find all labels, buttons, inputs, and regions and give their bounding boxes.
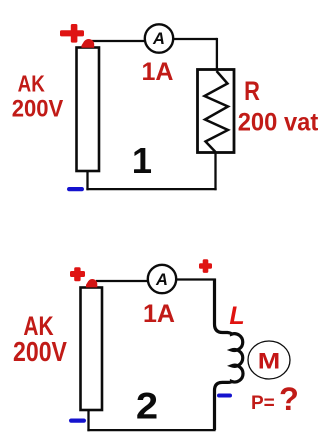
svg-text:AK: AK (18, 70, 46, 97)
svg-text:200V: 200V (12, 94, 64, 121)
svg-text:M: M (258, 349, 280, 373)
svg-text:P=: P= (251, 393, 275, 414)
svg-text:200V: 200V (13, 337, 67, 367)
svg-text:A: A (155, 271, 168, 289)
svg-text:2: 2 (136, 386, 158, 427)
svg-text:1A: 1A (142, 58, 174, 86)
svg-text:?: ? (279, 381, 299, 417)
svg-text:L: L (229, 302, 244, 330)
svg-text:1: 1 (132, 140, 152, 181)
svg-text:200 vat: 200 vat (238, 109, 319, 137)
svg-text:1A: 1A (143, 300, 175, 328)
svg-text:R: R (244, 77, 260, 107)
svg-text:A: A (152, 30, 165, 48)
